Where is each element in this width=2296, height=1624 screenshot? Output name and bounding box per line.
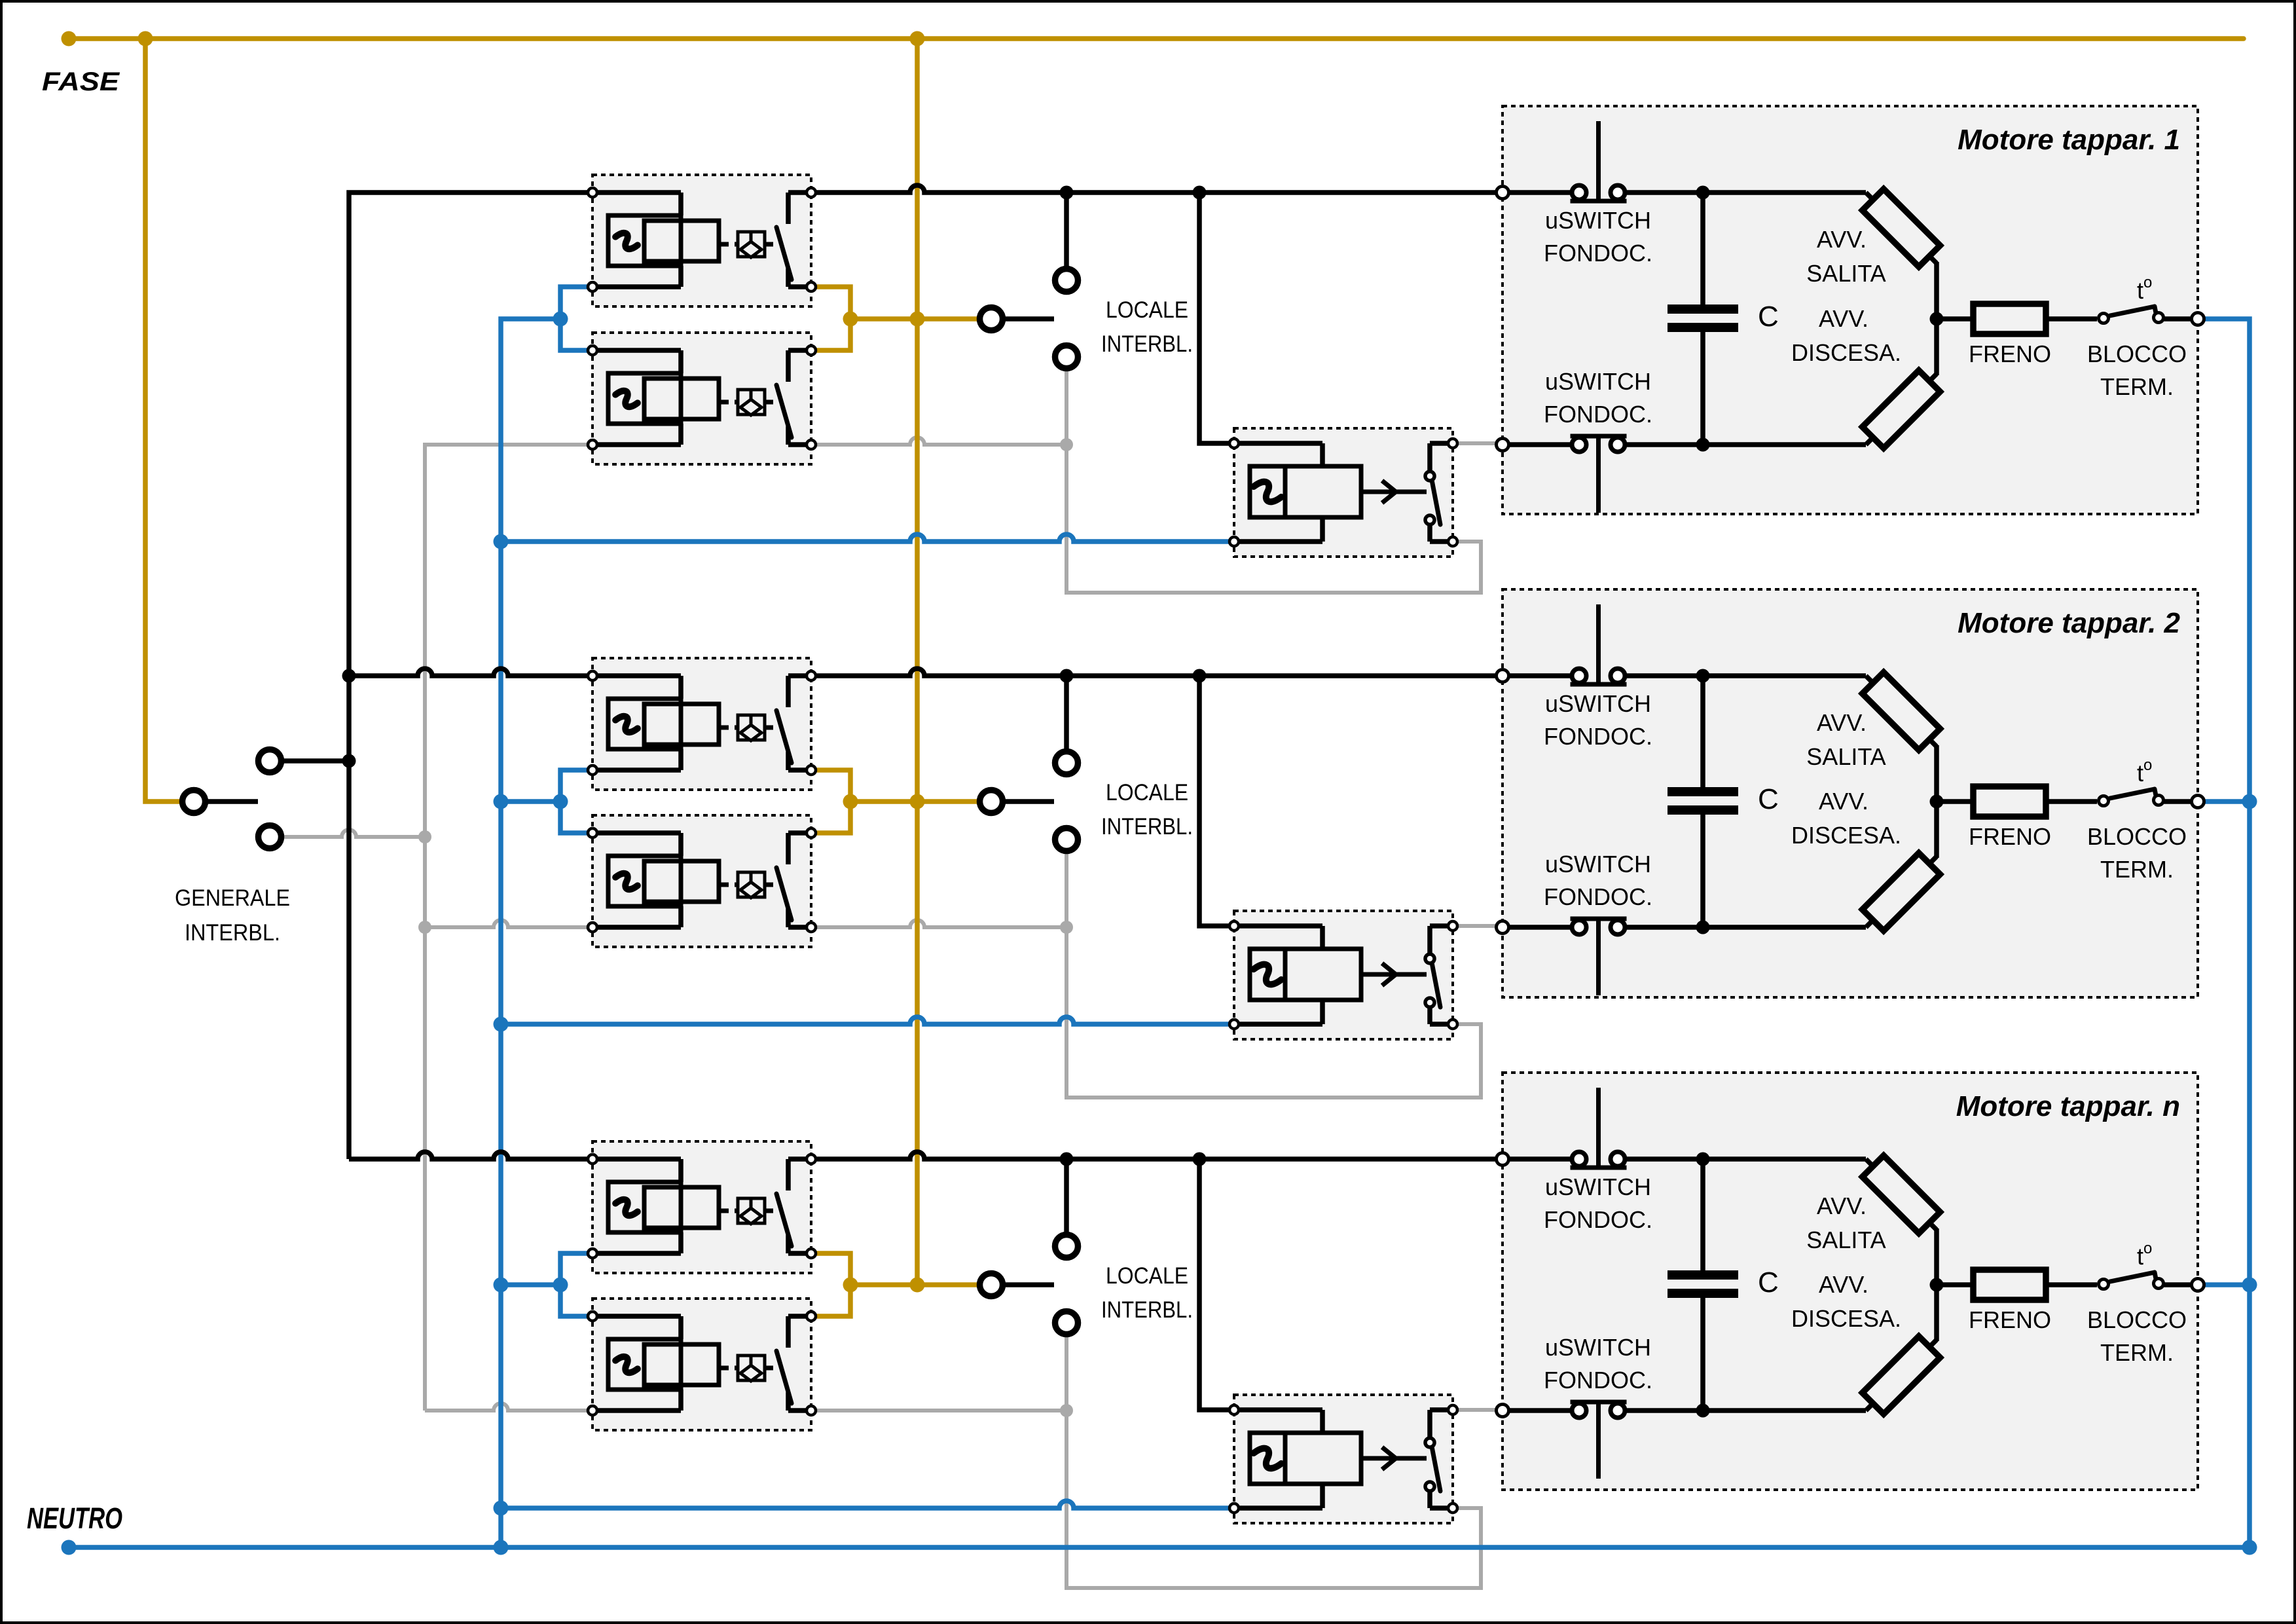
relay interlock box B (row 1) [592, 333, 811, 464]
svg-text:FRENO: FRENO [1969, 1306, 2051, 1333]
motor terminal right (row 3) [2192, 1279, 2204, 1291]
blue return wire (row 1) [501, 534, 1234, 542]
svg-text:uSWITCH: uSWITCH [1545, 207, 1651, 234]
svg-text:FONDOC.: FONDOC. [1544, 723, 1652, 750]
capacitor C (row 3) [1700, 1159, 1705, 1270]
GENERALE lever [207, 799, 258, 804]
svg-text:FRENO: FRENO [1969, 341, 2051, 367]
svg-text:uSWITCH: uSWITCH [1545, 851, 1651, 877]
relay contact switch B3 [788, 1314, 811, 1319]
relay interlock box A (row 2) [592, 658, 811, 790]
node capacitor bottom (row 2) [1703, 925, 1866, 930]
relay interlock box A (row 1) [592, 175, 811, 306]
brake resistor FRENO (row 2) [1973, 786, 2046, 817]
gray junction dot (row 2) [1060, 921, 1073, 934]
relay coil KA3 [592, 1156, 681, 1162]
wire node to brake (row 1) [1937, 316, 1973, 322]
thermal contact t° (row 2) [2110, 789, 2155, 798]
terminal A2 bottom-right [807, 766, 816, 775]
svg-text:INTERBL.: INTERBL. [1101, 1297, 1193, 1323]
wire motor top in (row 3) [1503, 1156, 1570, 1162]
terminal B1 top-left [588, 346, 597, 355]
svg-text:FONDOC.: FONDOC. [1544, 1367, 1652, 1393]
black row 2 bus [811, 669, 1503, 676]
motor star node (row 2) [1930, 795, 1944, 809]
switch LOCALE INTERBL pole (row 3) [980, 1274, 1003, 1297]
terminal A1 bottom-right [807, 282, 816, 291]
changeover contact (row 2) [1430, 923, 1453, 929]
svg-text:TERM.: TERM. [2100, 856, 2174, 883]
latching actuator icon B3 [721, 1366, 738, 1371]
gray wire row3 right link [811, 1409, 1066, 1412]
blue motor exit wire (row 3) [2204, 1282, 2250, 1287]
actuating arrow (row 2) [1361, 972, 1427, 977]
svg-text:o: o [2143, 274, 2152, 291]
gray throw drop (row 1) [1065, 370, 1068, 445]
gray wire relay to motor (row 3) [1453, 1408, 1503, 1412]
wire motor bottom in (row 3) [1503, 1408, 1570, 1413]
motor terminal bottom-left (row 2) [1497, 921, 1509, 934]
svg-text:C: C [1758, 783, 1779, 815]
blue motor exit wire (row 2) [2204, 799, 2250, 804]
svg-text:C: C [1758, 301, 1779, 333]
throw contact bottom (row 1) [1425, 515, 1434, 525]
Motore tappar. 1 dashed box [1503, 106, 2198, 514]
black drop to impulse relay (row 1) [1199, 193, 1234, 443]
blue dot riser (row 2) [494, 794, 509, 809]
throw contact top (row 3) [1425, 1438, 1434, 1447]
impulse relay terminal top-right (row 3) [1448, 1405, 1457, 1414]
black row2 bus left part [349, 669, 592, 676]
blue T to relay terminals (row 2) [560, 770, 592, 833]
impulse relay box (row 3) [1234, 1395, 1453, 1523]
impulse relay terminal top-left (row 2) [1230, 921, 1239, 931]
blue T to relay terminals (row 1) [560, 287, 592, 350]
svg-text:AVV.: AVV. [1819, 305, 1868, 332]
svg-text:DISCESA.: DISCESA. [1791, 339, 1901, 366]
gray wire GENERALE lower throw [283, 830, 425, 837]
wire node to brake (row 3) [1937, 1282, 1973, 1287]
svg-text:FONDOC.: FONDOC. [1544, 1206, 1652, 1233]
capacitor C (row 2) [1700, 676, 1705, 787]
svg-text:AVV.: AVV. [1817, 709, 1867, 736]
relay contact switch A2 [788, 673, 811, 678]
latching actuator icon B2 [721, 883, 738, 887]
svg-text:SALITA: SALITA [1806, 260, 1886, 287]
black drop to LOCALE throw (row 3) [1064, 1159, 1069, 1232]
svg-text:FASE: FASE [42, 67, 120, 96]
LOCALE lever (row 3) [1004, 1282, 1054, 1287]
wire motor bottom in (row 1) [1503, 442, 1570, 447]
latching actuator icon B1 [721, 400, 738, 405]
svg-text:C: C [1758, 1266, 1779, 1299]
blue feed link (row 2) [501, 799, 560, 804]
gray vertical bus [425, 445, 592, 1411]
gold junction dot riser (row 1) [910, 312, 925, 327]
blue right riser dot at NEUTRO [2242, 1540, 2257, 1555]
gray throw drop (row 3) [1065, 1336, 1068, 1411]
gray wire row2 right link [811, 920, 1066, 927]
bus dot LOCALE (row 2) [1060, 669, 1074, 683]
gray wire row3 left feed [425, 1403, 592, 1411]
gray throw drop (row 2) [1065, 853, 1068, 927]
svg-text:GENERALE: GENERALE [175, 885, 290, 911]
impulse relay coil (row 2) [1234, 923, 1322, 929]
wire node to brake (row 2) [1937, 799, 1973, 804]
blue dot T (row 1) [553, 312, 568, 327]
LOCALE bottom throw (row 3) [1055, 1312, 1078, 1335]
relay contact switch B1 [788, 348, 811, 353]
limit microswitch lower (row 3) [1571, 1400, 1627, 1405]
gold riser to GENERALE [145, 39, 181, 802]
gray wire relay to motor (row 2) [1453, 924, 1503, 928]
gray wire row1 right link [811, 437, 1066, 445]
gold wire to LOCALE pole (row 1) [850, 316, 978, 322]
svg-text:AVV.: AVV. [1819, 788, 1868, 815]
svg-text:o: o [2143, 756, 2152, 774]
GENERALE bottom throw [259, 826, 282, 849]
terminal B3 bottom-left [588, 1406, 597, 1415]
black feeder dot GENERALE [342, 754, 356, 768]
terminal B2 bottom-right [807, 923, 816, 932]
relay contact switch A3 [788, 1156, 811, 1162]
gray junction dot (row 1) [1060, 438, 1073, 451]
gray return loop (row 1) [1066, 445, 1481, 593]
relay contact switch A1 [788, 190, 811, 195]
motor terminal right (row 1) [2192, 313, 2204, 325]
black feeder vertical [349, 193, 592, 1159]
node capacitor bottom (row 1) [1703, 442, 1866, 447]
bus dot impulse feed (row 1) [1193, 186, 1207, 200]
limit microswitch upper (row 2) [1571, 682, 1627, 687]
bus dot LOCALE (row 3) [1060, 1153, 1074, 1166]
node capacitor top (row 3) [1703, 1156, 1866, 1162]
brake resistor FRENO (row 1) [1973, 304, 2046, 334]
winding AVV. DISCESA (row 3) [1866, 1340, 1937, 1411]
impulse relay terminal bottom-right (row 1) [1448, 537, 1457, 546]
relay coil KA1 [592, 190, 681, 195]
gold junction dot riser (row 3) [910, 1278, 925, 1293]
gray wire row2 left feed [425, 920, 592, 927]
svg-text:DISCESA.: DISCESA. [1791, 822, 1901, 849]
impulse relay box (row 1) [1234, 428, 1453, 557]
motor terminal right (row 2) [2192, 796, 2204, 808]
gold Z-link relay pair (row 3) [811, 1253, 850, 1316]
wire motor top in (row 2) [1503, 673, 1570, 678]
GENERALE top throw wire [283, 758, 349, 764]
impulse relay terminal top-right (row 1) [1448, 439, 1457, 448]
capacitor C (row 1) [1700, 193, 1705, 304]
terminal A1 top-left [588, 188, 597, 197]
svg-text:LOCALE: LOCALE [1106, 297, 1188, 323]
gray wire relay to motor (row 1) [1453, 441, 1503, 445]
changeover contact (row 1) [1430, 441, 1453, 446]
gold junction dot z-link (row 1) [843, 312, 858, 327]
relay interlock box B (row 2) [592, 815, 811, 947]
blue dot right riser (row 3) [2242, 1278, 2257, 1293]
thermal contact t° (row 3) [2110, 1272, 2155, 1282]
black drop to impulse relay (row 3) [1199, 1159, 1234, 1410]
motor terminal top-left (row 1) [1497, 187, 1509, 199]
winding AVV. SALITA (row 2) [1866, 676, 1937, 747]
svg-text:Motore tappar. 1: Motore tappar. 1 [1958, 124, 2180, 156]
terminal A2 bottom-left [588, 766, 597, 775]
switch LOCALE INTERBL pole (row 2) [980, 790, 1003, 813]
GENERALE top throw [259, 750, 282, 773]
blue feed link (row 3) [501, 1282, 560, 1287]
latching actuator icon A1 [721, 242, 738, 247]
terminal A3 bottom-left [588, 1249, 597, 1258]
LOCALE lever (row 2) [1004, 799, 1054, 804]
FASE bus dot at distribution riser [910, 31, 925, 46]
black feeder dot row2 [342, 669, 356, 683]
terminal B2 top-left [588, 828, 597, 838]
LOCALE top throw (row 2) [1055, 752, 1078, 775]
svg-text:Motore tappar. n: Motore tappar. n [1956, 1090, 2180, 1122]
blue dot return (row 3) [494, 1501, 509, 1516]
winding AVV. SALITA (row 3) [1866, 1159, 1937, 1230]
relay coil KB2 [592, 830, 681, 836]
terminal B3 top-left [588, 1312, 597, 1321]
motor terminal bottom-left (row 1) [1497, 439, 1509, 451]
Motore tappar. 2 dashed box [1503, 589, 2198, 997]
blue dot right riser (row 2) [2242, 794, 2257, 809]
motor star node (row 1) [1930, 312, 1944, 326]
svg-text:INTERBL.: INTERBL. [1101, 331, 1193, 357]
terminal B2 top-right [807, 828, 816, 838]
terminal A3 bottom-right [807, 1249, 816, 1258]
throw contact bottom (row 2) [1425, 998, 1434, 1007]
relay contact switch B2 [788, 830, 811, 836]
svg-text:FONDOC.: FONDOC. [1544, 401, 1652, 428]
gold Z-link relay pair (row 1) [811, 287, 850, 350]
svg-text:uSWITCH: uSWITCH [1545, 1173, 1651, 1200]
blue distribution riser [501, 319, 560, 1547]
gray junction dot GENERALE [418, 830, 431, 843]
blue riser dot at NEUTRO [494, 1540, 509, 1555]
svg-text:BLOCCO: BLOCCO [2087, 1306, 2187, 1333]
svg-text:LOCALE: LOCALE [1106, 1263, 1188, 1289]
wire brake to thermal (row 1) [2046, 316, 2097, 322]
LOCALE lever (row 1) [1004, 316, 1054, 322]
wire brake to thermal (row 3) [2046, 1282, 2097, 1287]
black row3 bus hop section [349, 1152, 592, 1159]
blue dot T (row 2) [553, 794, 568, 809]
svg-text:FONDOC.: FONDOC. [1544, 240, 1652, 267]
svg-text:TERM.: TERM. [2100, 373, 2174, 400]
svg-text:AVV.: AVV. [1819, 1271, 1868, 1298]
svg-text:BLOCCO: BLOCCO [2087, 341, 2187, 367]
blue dot return (row 1) [494, 534, 509, 549]
svg-text:uSWITCH: uSWITCH [1545, 368, 1651, 395]
impulse relay terminal bottom-right (row 3) [1448, 1504, 1457, 1513]
winding AVV. DISCESA (row 1) [1866, 374, 1937, 445]
actuating arrow (row 3) [1361, 1456, 1427, 1461]
relay interlock box A (row 3) [592, 1141, 811, 1273]
svg-text:AVV.: AVV. [1817, 226, 1867, 253]
wire motor top in (row 1) [1503, 190, 1570, 195]
gold junction dot z-link (row 2) [843, 794, 858, 809]
svg-text:LOCALE: LOCALE [1106, 780, 1188, 805]
svg-text:TERM.: TERM. [2100, 1339, 2174, 1366]
impulse relay terminal bottom-left (row 2) [1230, 1020, 1239, 1029]
impulse relay coil (row 1) [1234, 441, 1322, 446]
svg-text:FRENO: FRENO [1969, 823, 2051, 850]
limit microswitch lower (row 1) [1571, 434, 1627, 439]
black row 1 bus [811, 185, 1503, 193]
blue dot T (row 3) [553, 1278, 568, 1293]
blue return wire (row 2) [501, 1017, 1234, 1024]
changeover contact (row 3) [1430, 1407, 1453, 1412]
terminal B1 top-right [807, 346, 816, 355]
motor terminal top-left (row 3) [1497, 1153, 1509, 1166]
gold distribution riser [915, 39, 920, 1285]
impulse relay terminal bottom-right (row 2) [1448, 1020, 1457, 1029]
gold wire to LOCALE pole (row 3) [850, 1282, 978, 1287]
svg-text:t: t [2137, 277, 2143, 304]
gray return loop (row 2) [1066, 927, 1481, 1098]
blue return wire (row 3) [501, 1501, 1234, 1508]
gray junction dot (row 3) [1060, 1404, 1073, 1417]
terminal A2 top-right [807, 671, 816, 680]
wire motor bottom in (row 2) [1503, 925, 1570, 930]
relay coil KB1 [592, 348, 681, 353]
switch GENERALE INTERBL pole [183, 790, 206, 813]
blue right return riser [2204, 319, 2250, 1547]
svg-text:uSWITCH: uSWITCH [1545, 1334, 1651, 1361]
gray return loop (row 3) [1066, 1411, 1481, 1588]
throw contact top (row 2) [1425, 954, 1434, 963]
brake resistor FRENO (row 3) [1973, 1270, 2046, 1300]
Motore tappar. n dashed box [1503, 1073, 2198, 1490]
latching actuator icon A3 [721, 1209, 738, 1213]
FASE bus dot at riser [138, 31, 153, 46]
black drop to LOCALE throw (row 2) [1064, 676, 1069, 749]
terminal A3 top-left [588, 1154, 597, 1164]
LOCALE bottom throw (row 2) [1055, 828, 1078, 851]
LOCALE top throw (row 3) [1055, 1235, 1078, 1258]
motor star node (row 3) [1930, 1278, 1944, 1292]
gold Z-link relay pair (row 2) [811, 770, 850, 833]
FASE bus dot left [62, 31, 77, 46]
gold wire to LOCALE pole (row 2) [850, 799, 978, 804]
black row 3 bus [811, 1152, 1503, 1159]
gold junction dot z-link (row 3) [843, 1278, 858, 1293]
impulse relay box (row 2) [1234, 911, 1453, 1039]
node capacitor top (row 1) [1703, 190, 1866, 195]
relay coil KA2 [592, 673, 681, 678]
impulse relay terminal bottom-left (row 3) [1230, 1504, 1239, 1513]
bus dot LOCALE (row 1) [1060, 186, 1074, 200]
thermal contact t° (row 1) [2110, 306, 2155, 316]
terminal B2 bottom-left [588, 923, 597, 932]
limit microswitch upper (row 1) [1571, 199, 1627, 204]
svg-text:INTERBL.: INTERBL. [1101, 814, 1193, 840]
terminal B1 bottom-right [807, 440, 816, 449]
impulse relay terminal top-left (row 3) [1230, 1405, 1239, 1414]
node capacitor bottom (row 3) [1703, 1408, 1866, 1413]
motor terminal bottom-left (row 3) [1497, 1405, 1509, 1417]
throw contact top (row 1) [1425, 471, 1434, 481]
gray junction dot row2 feed [418, 921, 431, 934]
svg-text:Motore tappar. 2: Motore tappar. 2 [1958, 607, 2180, 639]
svg-text:SALITA: SALITA [1806, 1227, 1886, 1253]
svg-text:SALITA: SALITA [1806, 743, 1886, 770]
actuating arrow (row 1) [1361, 490, 1427, 494]
impulse relay terminal bottom-left (row 1) [1230, 537, 1239, 546]
winding AVV. SALITA (row 1) [1866, 193, 1937, 263]
svg-text:o: o [2143, 1240, 2152, 1257]
winding AVV. DISCESA (row 2) [1866, 857, 1937, 927]
relay interlock box B (row 3) [592, 1299, 811, 1430]
terminal A1 bottom-left [588, 282, 597, 291]
terminal A3 top-right [807, 1154, 816, 1164]
svg-text:INTERBL.: INTERBL. [185, 920, 280, 946]
terminal A2 top-left [588, 671, 597, 680]
node capacitor top (row 2) [1703, 673, 1866, 678]
svg-text:FONDOC.: FONDOC. [1544, 883, 1652, 910]
terminal B3 bottom-right [807, 1406, 816, 1415]
black drop to LOCALE throw (row 1) [1064, 193, 1069, 267]
bus dot impulse feed (row 2) [1193, 669, 1207, 683]
blue dot riser (row 3) [494, 1278, 509, 1293]
svg-text:BLOCCO: BLOCCO [2087, 823, 2187, 850]
NEUTRO bus dot left [62, 1540, 77, 1555]
NEUTRO bus [69, 1545, 2250, 1550]
svg-text:DISCESA.: DISCESA. [1791, 1305, 1901, 1332]
impulse relay terminal top-left (row 1) [1230, 439, 1239, 448]
FASE bus [69, 36, 2244, 41]
latching actuator icon A2 [721, 726, 738, 730]
black drop to impulse relay (row 2) [1199, 676, 1234, 926]
wire brake to thermal (row 2) [2046, 799, 2097, 804]
svg-text:uSWITCH: uSWITCH [1545, 690, 1651, 717]
bus dot impulse feed (row 3) [1193, 1153, 1207, 1166]
gold junction dot riser (row 2) [910, 794, 925, 809]
limit microswitch lower (row 2) [1571, 917, 1627, 921]
impulse relay terminal top-right (row 2) [1448, 921, 1457, 931]
impulse relay coil (row 3) [1234, 1407, 1322, 1412]
limit microswitch upper (row 3) [1571, 1166, 1627, 1170]
svg-text:t: t [2137, 1243, 2143, 1270]
LOCALE top throw (row 1) [1055, 269, 1078, 292]
svg-text:AVV.: AVV. [1817, 1192, 1867, 1219]
svg-text:NEUTRO: NEUTRO [27, 1502, 122, 1535]
throw contact bottom (row 3) [1425, 1482, 1434, 1491]
blue T to relay terminals (row 3) [560, 1253, 592, 1316]
terminal B1 bottom-left [588, 440, 597, 449]
LOCALE bottom throw (row 1) [1055, 346, 1078, 369]
switch LOCALE INTERBL pole (row 1) [980, 308, 1003, 331]
blue dot return (row 2) [494, 1017, 509, 1032]
svg-text:t: t [2137, 760, 2143, 786]
terminal B3 top-right [807, 1312, 816, 1321]
motor terminal top-left (row 2) [1497, 670, 1509, 682]
relay coil KB3 [592, 1314, 681, 1319]
terminal A1 top-right [807, 188, 816, 197]
